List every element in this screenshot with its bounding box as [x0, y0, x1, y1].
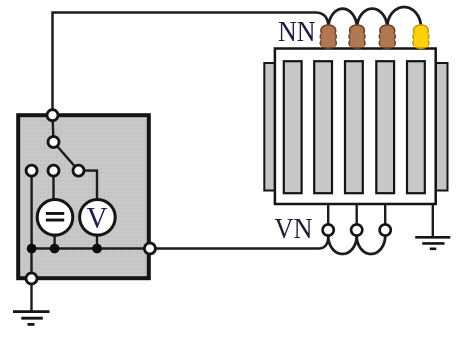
ground left — [13, 312, 50, 325]
wire left node to bus — [30, 171, 32, 249]
bottom arc terminal2-terminal3 — [357, 236, 386, 254]
junction dot bus-left — [27, 244, 37, 254]
bus wire to transformer VN terminal — [32, 236, 329, 249]
right outer winding bar — [436, 63, 448, 191]
svg-text:VN: VN — [275, 213, 313, 245]
winding bar 4 — [376, 61, 394, 193]
winding bar 1 — [284, 61, 302, 193]
switch blade — [54, 142, 79, 171]
node N3 (switch) — [73, 165, 84, 176]
top arc bushing1-bushing2 — [328, 9, 357, 27]
wire voltmeter to bus — [96, 235, 98, 249]
VN stem 3 — [384, 204, 386, 225]
VN stem 1 — [327, 204, 329, 225]
node N6 (right edge) — [144, 243, 155, 254]
NN bushing 2 (brown) — [349, 25, 365, 48]
ground right — [415, 237, 450, 249]
VN terminal 3 — [380, 224, 391, 235]
svg-text:V: V — [87, 201, 108, 234]
wire bus to bottom-left ground node — [30, 249, 32, 312]
top arc bushing3-bushing4 — [387, 7, 421, 27]
svg-text:NN: NN — [278, 16, 316, 48]
winding bar 3 — [345, 61, 363, 193]
junction dot bus-voltmeter — [92, 244, 102, 254]
NN bushing 4 (yellow) — [413, 25, 429, 48]
left outer winding bar — [264, 63, 275, 191]
node N5 — [48, 165, 59, 176]
DC source U1 — [37, 200, 73, 236]
junction dot bus-source — [50, 244, 60, 254]
node N2 — [48, 137, 59, 148]
wire DC source to bus — [53, 236, 55, 249]
VN terminal 1 — [323, 224, 334, 235]
transformer tank — [275, 49, 436, 205]
wire switch to voltmeter — [79, 171, 98, 200]
NN bushing 3 (brown) — [379, 25, 395, 48]
node N7 (bottom edge) — [26, 273, 37, 284]
VN terminal 2 — [351, 224, 362, 235]
wire N1 to N2 — [53, 115, 54, 142]
node N1 (top edge) — [47, 110, 58, 121]
VN stem 2 — [356, 204, 358, 225]
winding bar 5 — [407, 61, 425, 193]
NN bushing 1 (brown) — [320, 25, 336, 48]
control panel box — [18, 115, 149, 278]
voltmeter V — [80, 200, 116, 236]
wire from panel node to NN bushing 1 (top run) — [53, 13, 329, 116]
top arc bushing2-bushing3 — [357, 9, 387, 27]
winding bar 2 — [314, 61, 332, 193]
wire node to DC source — [52, 171, 54, 200]
DC source symbol bars — [46, 212, 64, 215]
bottom arc terminal1-terminal2 — [328, 236, 357, 254]
node N4 — [26, 165, 37, 176]
ground right stem — [432, 204, 434, 237]
